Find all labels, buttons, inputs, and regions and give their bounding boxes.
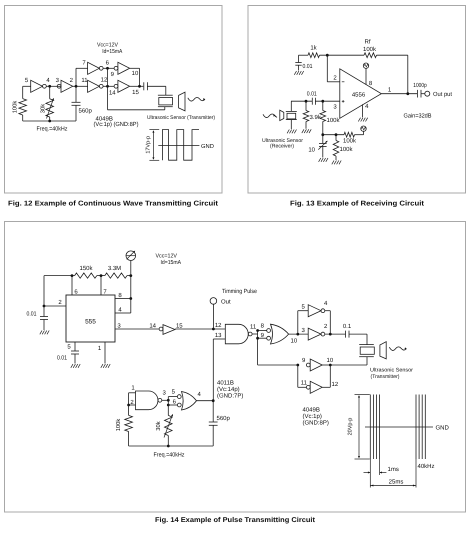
svg-text:30k: 30k bbox=[155, 421, 162, 430]
svg-text:12: 12 bbox=[332, 381, 339, 388]
svg-text:15: 15 bbox=[176, 322, 183, 329]
svg-text:0.01: 0.01 bbox=[57, 355, 68, 362]
svg-text:11: 11 bbox=[301, 380, 308, 387]
svg-text:15: 15 bbox=[132, 89, 139, 96]
svg-text:(Transmitter): (Transmitter) bbox=[371, 374, 400, 380]
svg-text:0.01: 0.01 bbox=[303, 63, 314, 70]
svg-text:10: 10 bbox=[132, 70, 139, 77]
svg-text:Gain=32dB: Gain=32dB bbox=[404, 113, 432, 120]
svg-text:(Vc:14p): (Vc:14p) bbox=[217, 386, 240, 393]
svg-text:20Vp-p: 20Vp-p bbox=[348, 418, 354, 436]
svg-text:1k: 1k bbox=[310, 45, 317, 52]
svg-text:555: 555 bbox=[85, 319, 96, 326]
svg-text:14: 14 bbox=[109, 90, 116, 97]
svg-text:13: 13 bbox=[215, 332, 222, 339]
svg-text:14: 14 bbox=[149, 322, 156, 329]
svg-text:3.9k: 3.9k bbox=[310, 114, 322, 121]
svg-text:0.01: 0.01 bbox=[27, 311, 38, 318]
svg-text:Vcc=12V: Vcc=12V bbox=[156, 253, 178, 260]
svg-text:17Vp-p: 17Vp-p bbox=[146, 136, 152, 154]
svg-text:Id=15mA: Id=15mA bbox=[161, 259, 182, 266]
svg-text:(Vc:1p) (GND:8P): (Vc:1p) (GND:8P) bbox=[94, 121, 139, 128]
svg-text:40kHz: 40kHz bbox=[418, 463, 435, 470]
svg-text:(Receiver): (Receiver) bbox=[270, 143, 294, 149]
svg-text:12: 12 bbox=[215, 322, 222, 329]
svg-text:12: 12 bbox=[101, 77, 108, 84]
svg-text:Out: Out bbox=[221, 299, 231, 306]
svg-text:Out put: Out put bbox=[433, 91, 452, 98]
svg-text:1000p: 1000p bbox=[413, 82, 427, 89]
svg-text:4011B: 4011B bbox=[217, 380, 234, 387]
svg-text:1ms: 1ms bbox=[388, 466, 399, 473]
svg-text:100k: 100k bbox=[327, 117, 341, 124]
svg-text:30k: 30k bbox=[39, 104, 46, 113]
svg-text:Freq.=40kHz: Freq.=40kHz bbox=[154, 452, 185, 459]
svg-text:560p: 560p bbox=[79, 108, 93, 115]
svg-text:11: 11 bbox=[250, 324, 257, 331]
svg-text:Ultrasonic Sensor: Ultrasonic Sensor bbox=[370, 368, 413, 374]
svg-text:10: 10 bbox=[327, 357, 334, 364]
svg-text:150k: 150k bbox=[79, 265, 93, 272]
svg-text:0.01: 0.01 bbox=[307, 91, 318, 98]
svg-text:11: 11 bbox=[81, 77, 88, 84]
svg-text:Ultrasonic Sensor (Transmitter: Ultrasonic Sensor (Transmitter) bbox=[147, 115, 215, 121]
svg-text:4556: 4556 bbox=[352, 91, 366, 98]
svg-text:100k: 100k bbox=[363, 46, 377, 53]
svg-text:0.1: 0.1 bbox=[343, 323, 352, 330]
svg-text:Freq.=40kHz: Freq.=40kHz bbox=[37, 125, 68, 132]
svg-text:10: 10 bbox=[308, 147, 315, 154]
svg-text:Rf: Rf bbox=[365, 39, 371, 46]
svg-text:3.3M: 3.3M bbox=[108, 265, 121, 272]
svg-text:GND: GND bbox=[436, 424, 450, 431]
svg-text:Fig. 14 Example of Pulse Tran: Fig. 14 Example of Pulse Transmitting Ci… bbox=[155, 516, 316, 524]
svg-text:100k: 100k bbox=[343, 137, 357, 144]
svg-text:560p: 560p bbox=[217, 415, 231, 422]
svg-text:Id=15mA: Id=15mA bbox=[102, 48, 122, 55]
svg-text:Fig. 12 Example of Continuous: Fig. 12 Example of Continuous Wave Trans… bbox=[8, 200, 219, 208]
svg-text:100k: 100k bbox=[12, 101, 19, 114]
svg-text:100k: 100k bbox=[115, 419, 122, 432]
svg-text:(GND:8P): (GND:8P) bbox=[303, 420, 329, 427]
svg-text:100k: 100k bbox=[340, 146, 354, 153]
svg-text:(Vc:1p): (Vc:1p) bbox=[303, 413, 322, 420]
svg-text:Fig. 13 Example of Receiving: Fig. 13 Example of Receiving Circuit bbox=[290, 200, 425, 208]
svg-text:4049B: 4049B bbox=[303, 407, 320, 414]
svg-text:GND: GND bbox=[201, 143, 214, 150]
svg-text:25ms: 25ms bbox=[389, 479, 404, 486]
svg-text:(GND:7P): (GND:7P) bbox=[217, 393, 243, 400]
svg-text:Timming Pulse: Timming Pulse bbox=[222, 288, 258, 295]
svg-text:Vcc=12V: Vcc=12V bbox=[97, 42, 118, 49]
svg-text:10: 10 bbox=[291, 337, 298, 344]
